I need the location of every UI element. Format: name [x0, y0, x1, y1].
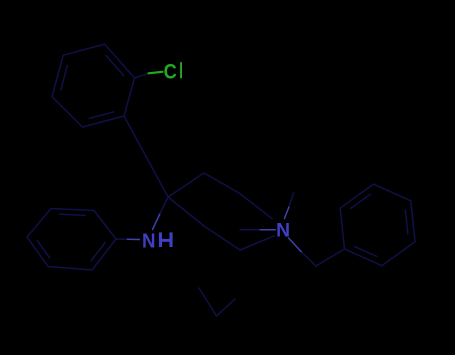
bond CH2-C4: [146, 157, 168, 198]
bond ringB-NH dark half: [116, 238, 128, 240]
bond N-C up blue half: [285, 206, 290, 219]
label NH: [142, 230, 173, 253]
ring C: benzyl phenyl: [340, 184, 415, 266]
bond N-CH2 dark half: [302, 253, 316, 267]
ring B: N-phenyl aniline: [27, 209, 116, 271]
bond N-C up dark half: [289, 193, 293, 206]
ring bond C2-N dark part: [239, 193, 272, 219]
ring bond C3-C2: [204, 173, 239, 193]
label Cl: [164, 60, 182, 84]
bond CH2-ringC ipso: [316, 249, 345, 266]
bond ringB-NH blue half: [128, 238, 140, 240]
extra segment b: [217, 299, 236, 316]
ring A: 2-chlorophenyl: [52, 44, 135, 127]
bond N-CH3 dark half: [240, 229, 259, 231]
bond NH-C4 blue half: [153, 213, 161, 229]
extra segment a: [199, 288, 217, 316]
bond ringA-CH2 benzylic: [124, 116, 146, 157]
bond N-CH2 blue half: [289, 238, 303, 253]
ring bond C4-C3: [168, 173, 204, 197]
svg-text:N: N: [142, 230, 155, 253]
svg-text:C: C: [164, 60, 177, 84]
ring bond C4-C5: [168, 197, 204, 226]
ring bond C6-N: [240, 236, 275, 250]
ring bond C5-C6: [204, 226, 240, 250]
bond NH-C4 dark half: [160, 197, 168, 213]
bond ringA-Cl green half: [149, 72, 163, 74]
bond ringA-Cl dark half: [135, 73, 149, 78]
bond N-CH3 blue half: [259, 229, 275, 231]
